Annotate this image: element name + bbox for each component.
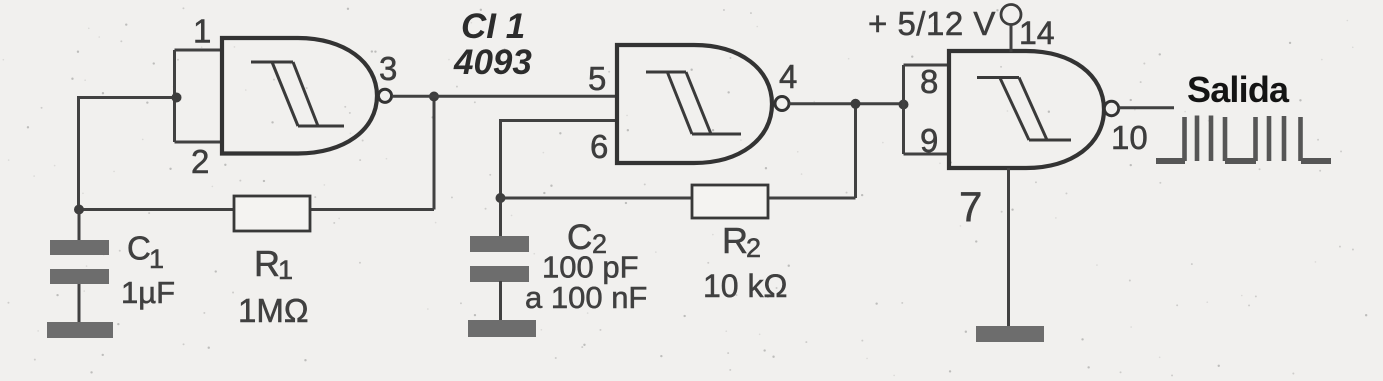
bubble gate1 output bbox=[378, 89, 391, 102]
node C bbox=[429, 92, 439, 102]
wire gate1 input connector with stubs to pins 1 and 2 bbox=[175, 50, 225, 142]
svg-text:Salida: Salida bbox=[1187, 69, 1290, 110]
bubble gate3 output bbox=[1104, 101, 1118, 115]
ground below C1 bbox=[47, 322, 113, 338]
wire C2 top lead bbox=[499, 198, 502, 237]
svg-text:8: 8 bbox=[920, 63, 938, 100]
svg-text:5: 5 bbox=[588, 60, 606, 97]
svg-text:R: R bbox=[722, 220, 748, 261]
svg-text:1MΩ: 1MΩ bbox=[238, 292, 309, 329]
ground below C2 bbox=[468, 320, 536, 337]
wire gate1 output to gate2 pin5 bbox=[392, 95, 618, 98]
svg-text:9: 9 bbox=[920, 122, 938, 159]
op gate U1b body bbox=[617, 45, 772, 163]
svg-text:R: R bbox=[254, 243, 280, 284]
svg-text:C: C bbox=[127, 230, 151, 267]
svg-text:14: 14 bbox=[1019, 15, 1055, 51]
node F bbox=[899, 100, 909, 110]
svg-text:4093: 4093 bbox=[453, 43, 532, 82]
bubble gate2 output bbox=[775, 97, 789, 111]
wire pin7 to ground bbox=[1007, 168, 1010, 327]
node D bbox=[496, 193, 506, 203]
schmitt symbol gate3 bbox=[977, 78, 1071, 141]
wire supply terminal to gate3 top bbox=[1010, 25, 1013, 53]
svg-text:1: 1 bbox=[193, 13, 211, 50]
svg-text:4: 4 bbox=[779, 58, 797, 95]
wire from node A left and down to node B bbox=[79, 98, 177, 211]
svg-text:1µF: 1µF bbox=[121, 275, 175, 310]
wire feedback: node B through R1 up to node C bbox=[79, 96, 434, 210]
svg-text:10: 10 bbox=[1111, 119, 1148, 156]
wire C2 bottom lead bbox=[499, 281, 502, 321]
node A bbox=[172, 93, 182, 103]
node B bbox=[74, 205, 84, 215]
capacitor C2 bbox=[470, 236, 529, 282]
wire gate2 output to gate3 inputs bbox=[789, 102, 904, 105]
svg-text:1: 1 bbox=[278, 255, 293, 285]
ground pin7 bbox=[976, 326, 1044, 342]
svg-text:2: 2 bbox=[191, 143, 209, 180]
capacitor C1 bbox=[50, 240, 109, 284]
resistor R1 bbox=[234, 196, 310, 231]
wire C1 bottom lead bbox=[78, 284, 81, 323]
waveform output pulses bbox=[1156, 116, 1331, 162]
op gate U1c body bbox=[949, 51, 1104, 168]
wire gate3 input connector with stubs to pins 8 and 9 bbox=[904, 65, 952, 154]
supply terminal circle pin 14 bbox=[1001, 5, 1021, 25]
svg-text:3: 3 bbox=[379, 50, 397, 87]
node E bbox=[851, 99, 861, 109]
svg-text:CI 1: CI 1 bbox=[461, 7, 525, 46]
wire gate2 pin6 to node D bbox=[501, 121, 619, 199]
svg-text:10 kΩ: 10 kΩ bbox=[703, 268, 787, 304]
schmitt symbol gate1 bbox=[251, 62, 344, 126]
wire C1 top lead bbox=[78, 210, 81, 241]
resistor R2 bbox=[692, 185, 768, 218]
schmitt symbol gate2 bbox=[646, 72, 741, 134]
svg-text:2: 2 bbox=[746, 233, 761, 263]
svg-text:+ 5/12 V: + 5/12 V bbox=[868, 5, 996, 42]
wire gate3 output bbox=[1119, 106, 1174, 109]
op gate U1a body bbox=[222, 38, 377, 154]
svg-text:a 100 nF: a 100 nF bbox=[525, 280, 647, 315]
wire node D through R2 up to gate2 output wire bbox=[501, 104, 856, 198]
svg-text:6: 6 bbox=[590, 128, 608, 165]
svg-text:1: 1 bbox=[149, 244, 164, 274]
svg-text:7: 7 bbox=[959, 183, 982, 230]
